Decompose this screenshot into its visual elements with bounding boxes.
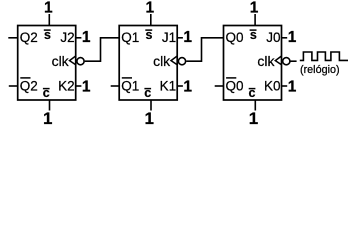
svg-text:J1: J1 bbox=[162, 30, 176, 45]
svg-text:clk: clk bbox=[52, 53, 70, 69]
wire: Q1-bar output stub bbox=[111, 85, 120, 87]
wire: preset stub FF1 bbox=[150, 14, 152, 26]
wire: clear stub FF1 bbox=[150, 100, 152, 111]
svg-text:1: 1 bbox=[43, 109, 52, 128]
svg-text:clk: clk bbox=[257, 53, 275, 69]
svg-text:1: 1 bbox=[183, 78, 192, 95]
clk edge-trigger wedge FF1 bbox=[171, 56, 177, 65]
svg-text:Q0: Q0 bbox=[226, 78, 244, 93]
flip-flop FF1 box bbox=[119, 26, 177, 101]
wire: J1 stub bbox=[177, 37, 183, 39]
flip-flop FF0 box bbox=[224, 26, 282, 101]
wire: Q0 to clk of FF1 bbox=[186, 38, 223, 61]
svg-text:K0: K0 bbox=[264, 78, 281, 93]
wire: Q0-bar output stub bbox=[215, 85, 224, 87]
svg-text:1: 1 bbox=[144, 109, 153, 128]
svg-text:J2: J2 bbox=[60, 30, 74, 45]
svg-text:Q2: Q2 bbox=[20, 78, 38, 93]
clk inversion bubble FF1 bbox=[178, 58, 185, 65]
clk inversion bubble FF0 bbox=[283, 58, 290, 65]
wire: K0 stub bbox=[282, 85, 288, 87]
svg-text:Q1: Q1 bbox=[121, 30, 139, 45]
wire: Q1 to clk of FF2 bbox=[85, 38, 120, 61]
svg-text:1: 1 bbox=[288, 78, 297, 95]
svg-text:1: 1 bbox=[44, 0, 53, 17]
svg-text:K1: K1 bbox=[160, 78, 177, 93]
svg-text:1: 1 bbox=[82, 78, 91, 95]
svg-text:Q2: Q2 bbox=[20, 30, 38, 45]
clk inversion bubble FF2 bbox=[77, 58, 84, 65]
wire: Q2-bar output stub bbox=[9, 85, 18, 87]
svg-text:Q1: Q1 bbox=[121, 78, 139, 93]
wire: clear stub FF0 bbox=[254, 100, 256, 111]
svg-text:1: 1 bbox=[250, 0, 259, 17]
clk edge-trigger wedge FF0 bbox=[275, 56, 281, 65]
svg-text:Q0: Q0 bbox=[226, 30, 244, 45]
svg-text:1: 1 bbox=[288, 29, 297, 46]
wire: clk FF0 to clock source bbox=[291, 60, 297, 62]
clock waveform symbol bbox=[300, 52, 348, 60]
wire: clear stub FF2 bbox=[49, 100, 51, 111]
svg-text:1: 1 bbox=[145, 0, 154, 17]
wire: K1 stub bbox=[177, 85, 183, 87]
clk edge-trigger wedge FF2 bbox=[70, 56, 76, 65]
svg-text:(relógio): (relógio) bbox=[300, 64, 340, 76]
svg-text:J0: J0 bbox=[266, 30, 280, 45]
wire: J0 stub bbox=[282, 37, 288, 39]
svg-text:1: 1 bbox=[249, 109, 258, 128]
wire: preset stub FF0 bbox=[254, 14, 256, 26]
wire: preset stub FF2 bbox=[48, 14, 50, 26]
svg-text:clk: clk bbox=[153, 53, 171, 69]
flip-flop FF2 box bbox=[18, 26, 76, 101]
svg-text:1: 1 bbox=[183, 29, 192, 46]
svg-text:K2: K2 bbox=[58, 78, 75, 93]
wire: Q2 output stub bbox=[8, 37, 17, 39]
wire: J2 stub bbox=[76, 37, 82, 39]
svg-text:1: 1 bbox=[82, 29, 91, 46]
wire: K2 stub bbox=[76, 85, 82, 87]
